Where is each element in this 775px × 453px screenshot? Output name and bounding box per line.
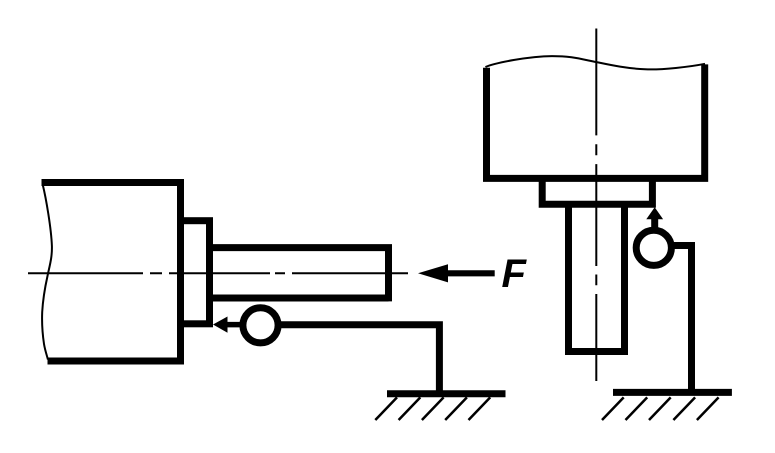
svg-text:F: F xyxy=(502,252,528,296)
